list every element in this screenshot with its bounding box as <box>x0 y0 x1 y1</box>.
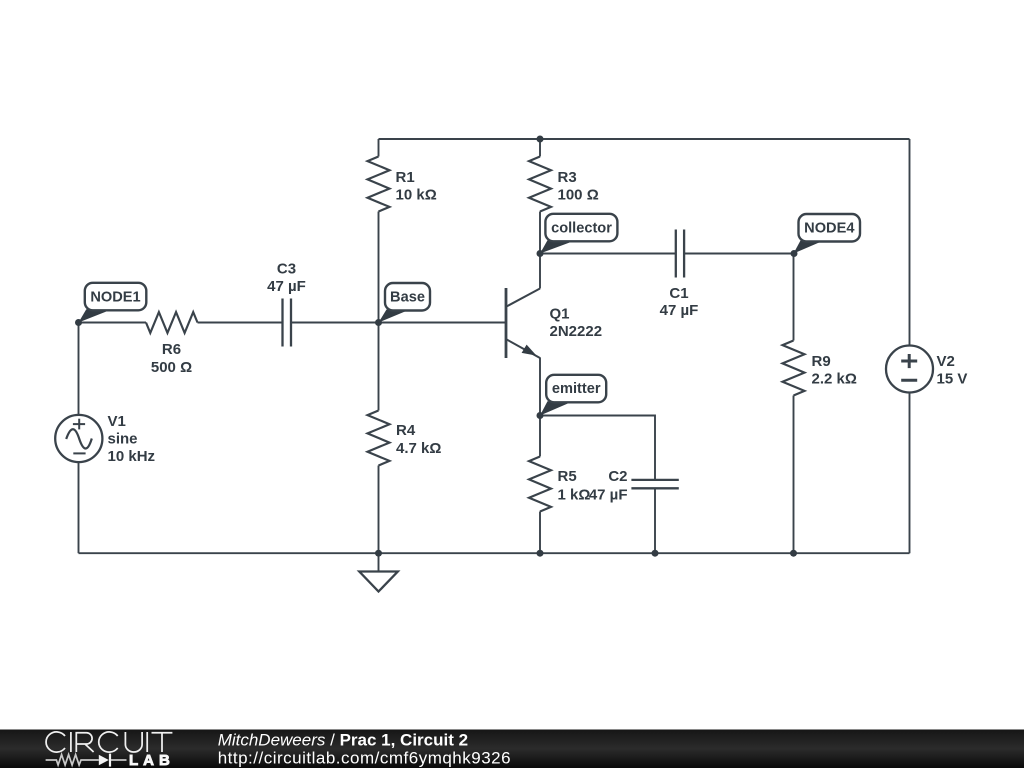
node collector junction dot <box>537 250 544 257</box>
svg-text:47 µF: 47 µF <box>267 278 306 295</box>
wire bottom bus <box>79 552 910 554</box>
svg-text:collector: collector <box>551 220 612 236</box>
svg-text:2.2 kΩ: 2.2 kΩ <box>812 371 857 388</box>
svg-text:47 µF: 47 µF <box>660 302 699 319</box>
wire top bus <box>379 138 910 140</box>
resistor R4 <box>368 411 390 466</box>
node R9 bottom junction dot <box>790 550 797 557</box>
wire R1 top lead <box>378 139 380 157</box>
wire NODE4 down to R9 <box>793 254 795 341</box>
svg-text:R5: R5 <box>558 468 577 485</box>
svg-text:2N2222: 2N2222 <box>550 323 603 340</box>
resistor R5 <box>529 457 551 512</box>
resistor R9 <box>783 341 805 396</box>
wire V2 branch down from top bus <box>909 139 911 346</box>
svg-text:R6: R6 <box>162 341 181 358</box>
svg-text:R3: R3 <box>558 169 577 186</box>
wire R9 bottom to bottom bus <box>793 396 795 554</box>
wire R1 bottom to base node <box>378 212 380 323</box>
node NODE4 junction dot <box>791 250 798 257</box>
wire R4 bottom to ground bus <box>378 466 380 554</box>
svg-text:C3: C3 <box>277 261 296 278</box>
node label Base <box>379 283 431 323</box>
svg-text:4.7 kΩ: 4.7 kΩ <box>396 440 441 457</box>
capacitor C3 <box>283 299 292 347</box>
svg-text:V1: V1 <box>108 413 126 430</box>
svg-text:47 µF: 47 µF <box>589 487 628 504</box>
wire base node to Q1 base <box>379 322 506 324</box>
wire C2 bottom to bottom bus <box>654 488 656 553</box>
footer logo resistor-diode glyph <box>46 754 127 767</box>
voltage source V2 <box>886 346 933 393</box>
wire R3 bottom to collector node <box>539 212 541 254</box>
wire R3 top lead <box>539 139 541 157</box>
svg-text:1 kΩ: 1 kΩ <box>558 487 591 504</box>
svg-text:C2: C2 <box>608 468 627 485</box>
node Base junction dot <box>375 319 382 326</box>
resistor R6 <box>146 312 198 333</box>
wire R6 to C3 <box>198 322 283 324</box>
svg-text:Q1: Q1 <box>550 306 570 323</box>
svg-text:http://circuitlab.com/cmf6ymqh: http://circuitlab.com/cmf6ymqhk9326 <box>218 749 511 768</box>
svg-text:C1: C1 <box>669 285 688 302</box>
svg-text:500 Ω: 500 Ω <box>151 359 192 376</box>
node label NODE1 <box>79 283 147 323</box>
svg-text:sine: sine <box>108 431 138 448</box>
node top bus R3 junction dot <box>537 136 544 143</box>
svg-text:LAB: LAB <box>129 752 175 768</box>
svg-text:R4: R4 <box>396 422 416 439</box>
wire emitter node right to C2 branch <box>540 416 655 480</box>
svg-text:R1: R1 <box>396 169 415 186</box>
svg-text:100 Ω: 100 Ω <box>558 187 599 204</box>
voltage source V1 <box>55 415 102 462</box>
svg-text:10 kHz: 10 kHz <box>108 448 156 465</box>
capacitor C1 <box>676 230 684 278</box>
wire collector node to C1 <box>540 253 676 255</box>
node label NODE4 <box>794 214 861 254</box>
svg-text:10 kΩ: 10 kΩ <box>396 187 437 204</box>
wire base node down to R4 <box>378 323 380 411</box>
svg-text:NODE1: NODE1 <box>90 290 140 306</box>
resistor R1 <box>368 157 390 212</box>
svg-text:V2: V2 <box>937 353 955 370</box>
node label emitter <box>540 375 606 416</box>
node label collector <box>540 214 617 254</box>
node R5 bottom junction dot <box>537 550 544 557</box>
svg-text:emitter: emitter <box>552 381 601 397</box>
svg-text:Base: Base <box>390 290 425 306</box>
svg-text:R9: R9 <box>812 353 831 370</box>
wire C1 to NODE4 <box>684 253 794 255</box>
node emitter junction dot <box>537 412 544 419</box>
transistor Q1 <box>506 254 540 416</box>
footer logo CIRCUIT <box>46 732 172 752</box>
svg-text:NODE4: NODE4 <box>804 220 855 236</box>
svg-text:15 V: 15 V <box>937 371 968 388</box>
capacitor C2 <box>631 480 678 488</box>
wire C3 to base node <box>291 322 379 324</box>
ground <box>359 572 398 592</box>
wire NODE1 to R6 <box>79 322 147 324</box>
node C2 bottom junction dot <box>652 550 659 557</box>
wire V1 bottom lead <box>78 462 80 553</box>
resistor R3 <box>529 157 551 212</box>
wire ground stub <box>378 553 380 571</box>
node ground junction dot <box>375 550 382 557</box>
wire V2 bottom lead <box>909 393 911 554</box>
wire V1 top lead <box>78 323 80 416</box>
svg-text:MitchDeweers / Prac 1, Circuit: MitchDeweers / Prac 1, Circuit 2 <box>218 731 468 750</box>
wire emitter to R5 <box>539 416 541 457</box>
node NODE1 junction dot <box>75 319 82 326</box>
wire R5 bottom to bottom bus <box>539 512 541 554</box>
footer bar <box>0 730 1024 768</box>
